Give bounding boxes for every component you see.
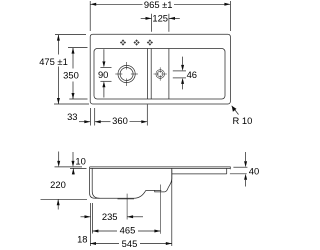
sink outer outline (plan view) [90, 34, 230, 104]
basin inner area rect (plan view) [94, 49, 225, 100]
dimension 10 [55, 152, 87, 175]
dimension 46 (middle drain) [173, 57, 186, 90]
left end cap [89, 167, 91, 169]
dimension 545 [90, 170, 172, 247]
middle drain cross ticks [154, 67, 167, 80]
R 10 leader [232, 106, 239, 115]
main drain centerline [126, 194, 128, 220]
drain recess notch [155, 190, 165, 192]
svg-text:220: 220 [50, 179, 66, 190]
drainboard apron underside [172, 173, 227, 175]
middle bowl right wall [165, 168, 172, 192]
ledge between bowls [146, 189, 162, 191]
svg-text:360: 360 [112, 115, 128, 126]
dimension 235 [81, 203, 144, 246]
svg-text:40: 40 [249, 165, 259, 176]
svg-text:90: 90 [98, 69, 108, 80]
tap hole symbol 2 [134, 39, 140, 45]
svg-text:46: 46 [187, 69, 197, 80]
svg-text:235: 235 [102, 211, 118, 222]
dimension 465 [92, 230, 160, 232]
main drain circle [118, 65, 135, 82]
tap hole symbol 3 [147, 39, 153, 45]
flange top surface [90, 167, 231, 169]
bowl bottom [95, 190, 146, 198]
bowl inner wall [92, 168, 99, 198]
dimension 475 +/-1 [54, 35, 89, 104]
tap hole symbol 1 [120, 39, 126, 45]
middle drain circle [156, 70, 165, 79]
svg-text:18: 18 [77, 234, 87, 245]
arrow 33 [84, 120, 90, 123]
svg-text:125: 125 [152, 13, 168, 24]
divider wire right of bridge [150, 49, 152, 100]
apron step at right tip [226, 169, 228, 174]
svg-text:965 ±1: 965 ±1 [144, 0, 173, 10]
dimension 125 [141, 14, 180, 32]
svg-text:465: 465 [120, 225, 136, 236]
dimension 360 [95, 105, 148, 126]
dimension 350 [68, 48, 88, 99]
middle drain centerline [159, 185, 161, 234]
bowl outer wall [90, 168, 95, 198]
svg-text:475 ±1: 475 ±1 [39, 56, 68, 67]
svg-text:545: 545 [122, 238, 138, 249]
dimension 33 [79, 108, 95, 126]
svg-text:350: 350 [63, 69, 79, 80]
divider wire left of bridge [146, 49, 148, 100]
dimension 965 +/-1 [90, 1, 230, 31]
svg-text:R 10: R 10 [233, 115, 253, 126]
flange underside [90, 167, 231, 169]
svg-text:10: 10 [75, 156, 85, 167]
main drain cross ticks [115, 62, 138, 86]
main bowl drain recess [118, 198, 135, 200]
svg-text:33: 33 [67, 111, 77, 122]
divider middle bowl / drainboard [168, 49, 170, 100]
dimension 40 [230, 152, 248, 187]
dimension 220 [41, 152, 88, 210]
dimension 90 (drain) [100, 49, 111, 97]
